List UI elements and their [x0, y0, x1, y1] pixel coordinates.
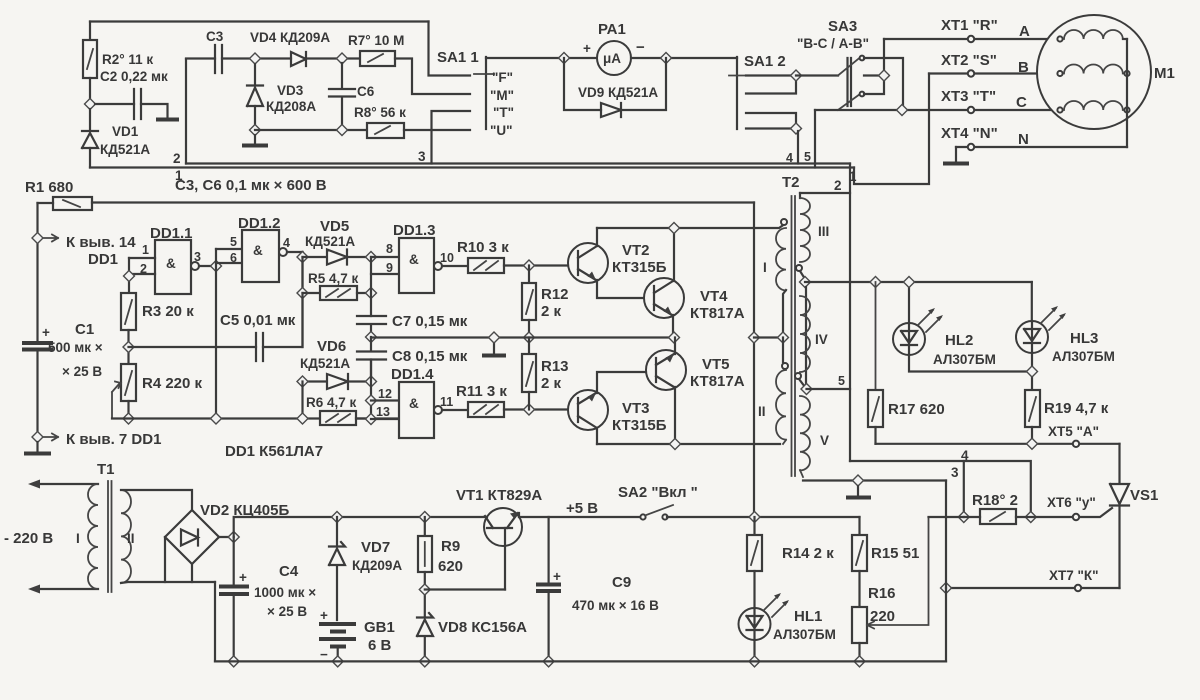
wire SA1.2 contact a: [746, 74, 796, 76]
svg-text:11: 11: [440, 395, 453, 409]
svg-text:М1: М1: [1154, 65, 1175, 82]
ground VD3 node: [254, 135, 256, 144]
LED HL1: [739, 608, 771, 640]
svg-text:R3 20 к: R3 20 к: [142, 303, 194, 320]
svg-text:КД521А: КД521А: [300, 356, 350, 371]
svg-text:μА: μА: [603, 51, 621, 66]
svg-text:VT4: VT4: [700, 288, 728, 305]
svg-text:I: I: [76, 531, 80, 546]
wire R4 bottom to feedback rail: [127, 401, 129, 419]
wire C5 right lead: [263, 252, 303, 347]
svg-text:470 мк × 16 В: 470 мк × 16 В: [572, 598, 659, 613]
node XT3 branch: [897, 105, 908, 116]
svg-text:III: III: [818, 224, 829, 239]
svg-text:КД209А: КД209А: [352, 558, 402, 573]
svg-text:Т2: Т2: [782, 174, 800, 191]
node R18 right: [1025, 512, 1036, 523]
capacitor C9: [547, 517, 549, 584]
node VD6 right: [366, 376, 377, 387]
gate DD1.1: [155, 240, 191, 294]
svg-text:C1: C1: [75, 321, 94, 338]
svg-text:+: +: [320, 608, 328, 623]
svg-text:DD1.2: DD1.2: [238, 215, 281, 232]
node R3/R4/C5: [123, 342, 134, 353]
svg-text:C3: C3: [206, 29, 224, 44]
wire DD1.1 pin2: [129, 258, 155, 293]
svg-text:4: 4: [283, 236, 290, 250]
wire XT2 row: [929, 72, 1057, 74]
svg-text:&: &: [409, 396, 419, 411]
ground XT4: [955, 147, 957, 162]
svg-text:&: &: [166, 256, 176, 271]
wire C2 left lead: [95, 103, 134, 105]
wire SA3 pole1: [796, 74, 838, 76]
wire top rail: [90, 20, 429, 22]
svg-text:C8 0,15 мк: C8 0,15 мк: [392, 348, 468, 365]
svg-text:IV: IV: [815, 332, 828, 347]
svg-text:VD1: VD1: [112, 124, 139, 139]
svg-text:8: 8: [386, 242, 393, 256]
wire R3-R4 link: [127, 330, 129, 364]
ground C2: [156, 118, 179, 122]
wire DD1.2 pin5: [216, 248, 242, 250]
wire R15-R16 link: [858, 571, 860, 607]
LED HL3: [1031, 282, 1033, 321]
diode VD4: [291, 52, 306, 66]
ground mid rail: [493, 338, 495, 355]
svg-text:&: &: [409, 252, 419, 267]
motor M1 housing: [1037, 15, 1151, 129]
diode VD1: [82, 131, 98, 148]
wire VT1 base link: [425, 588, 505, 590]
resistor R9: [424, 517, 426, 536]
svg-text:VS1: VS1: [1130, 487, 1158, 504]
resistor R3: [121, 293, 136, 330]
svg-text:VT1 КТ829А: VT1 КТ829А: [456, 487, 542, 504]
wire R2 bottom lead: [89, 78, 91, 104]
svg-text:× 25 В: × 25 В: [62, 364, 102, 379]
svg-text:2: 2: [834, 178, 842, 193]
svg-text:3: 3: [418, 149, 426, 164]
transistor VT5: [646, 350, 686, 390]
svg-text:5: 5: [804, 150, 811, 164]
wire T2 centre tap: [754, 336, 783, 338]
wire T1 secondary top to bridge: [121, 490, 192, 510]
wire SA1.2 contact c: [746, 113, 796, 129]
wire XT5 rail: [876, 443, 1120, 445]
wire DD1.4 pin13: [371, 418, 399, 420]
svg-text:R13: R13: [541, 358, 569, 375]
resistor R4 trimmer: [121, 364, 136, 401]
wire raw rail: [234, 517, 486, 537]
svg-text:620: 620: [438, 558, 463, 575]
resistor R15: [858, 517, 860, 535]
wire C3 right lead: [222, 57, 291, 59]
node VD7 top: [332, 512, 343, 523]
svg-text:R2° 11 к: R2° 11 к: [102, 52, 153, 67]
wire emitter rail bottom: [597, 443, 780, 445]
node SA1.2 lower: [791, 123, 802, 134]
thyristor VS1: [1110, 444, 1129, 588]
wire gate feed vertical x850: [849, 193, 851, 461]
wire SA1.2 contact d: [746, 127, 796, 129]
wire HL1 bottom: [753, 640, 755, 661]
svg-text:VD5: VD5: [320, 218, 349, 235]
wire PA1 right: [631, 57, 737, 59]
svg-text:+: +: [42, 325, 50, 340]
svg-text:R4 220 к: R4 220 к: [142, 375, 203, 392]
svg-text:ХТ5 "А": ХТ5 "А": [1048, 424, 1099, 439]
wire pin4 drop: [797, 131, 799, 164]
wire R14 bottom to HL1: [753, 571, 755, 608]
node C4 tap: [228, 532, 239, 543]
svg-text:4: 4: [961, 448, 969, 463]
wire XT3 row: [815, 109, 1057, 111]
wire bridge plus out: [219, 536, 234, 538]
node R3 top input: [124, 271, 135, 282]
wire R19 bottom: [1031, 427, 1033, 444]
wire arrow to pin7: [44, 434, 58, 441]
wire T1 primary bottom lead: [34, 588, 98, 590]
wire collector rail top: [597, 225, 784, 229]
svg-text:DD1: DD1: [88, 251, 118, 268]
wire DD1.3 out: [442, 265, 468, 267]
svg-text:R6 4,7 к: R6 4,7 к: [306, 395, 357, 410]
node VT3 base: [524, 404, 535, 415]
node VD6 left: [297, 376, 308, 387]
wire T2 V bottom to ground: [803, 479, 946, 481]
wire T1 primary top lead: [34, 483, 98, 485]
node bus tap T2: [749, 332, 760, 343]
svg-text:HL2: HL2: [945, 332, 973, 349]
transistor VT3: [568, 390, 608, 430]
battery GB1: [319, 622, 356, 626]
wire XT7 riser to T2 ground rail: [945, 481, 947, 589]
svg-text:"М": "М": [490, 88, 514, 103]
svg-text:6: 6: [230, 251, 237, 265]
terminal XT3: [968, 107, 974, 113]
terminal XT2: [968, 70, 974, 76]
capacitor C5: [256, 333, 263, 361]
node SA3 out: [879, 70, 890, 81]
winding T2-III: [799, 193, 801, 198]
wire R11 right: [504, 408, 570, 410]
diode VD3: [247, 86, 263, 107]
resistor R7: [360, 51, 395, 66]
svg-text:C7 0,15 мк: C7 0,15 мк: [392, 313, 468, 330]
node bottom rail x216: [211, 413, 222, 424]
node VT2 base: [524, 260, 535, 271]
wire R18 leads: [964, 516, 1073, 518]
resistor R18: [980, 509, 1016, 524]
svg-text:"Т": "Т": [493, 105, 514, 120]
resistor R5: [303, 292, 321, 294]
node T2 pin III-IV: [800, 277, 811, 288]
terminal XT5: [1073, 441, 1079, 447]
svg-text:VT2: VT2: [622, 242, 650, 259]
wire pin5 drop: [814, 110, 816, 168]
svg-text:12: 12: [378, 387, 392, 401]
svg-text:2 к: 2 к: [541, 375, 562, 392]
wire T1 secondary bottom: [121, 582, 215, 583]
terminal XT4: [968, 144, 974, 150]
wire rail pin2: [186, 162, 850, 164]
node VD5 left: [297, 252, 308, 263]
winding T1 secondary: [121, 490, 131, 583]
svg-text:R10 3 к: R10 3 к: [457, 239, 509, 256]
wire R10 right: [504, 264, 570, 266]
svg-text:R7° 10 М: R7° 10 М: [348, 33, 404, 48]
resistor R13: [528, 338, 530, 355]
winding T1 primary: [88, 484, 98, 589]
node C9 bottom rail: [543, 656, 554, 667]
winding T2-II: [782, 338, 784, 363]
diode VD5: [303, 250, 372, 265]
svg-text:КТ817А: КТ817А: [690, 305, 745, 322]
svg-text:&: &: [253, 243, 263, 258]
wire R16 wiper: [867, 517, 929, 629]
diode VD7 zener: [329, 517, 345, 620]
diode VD9: [601, 103, 621, 117]
wire VD1 top lead: [89, 109, 91, 130]
svg-text:R16: R16: [868, 585, 896, 602]
wire rail2 corner to T2 pin2: [800, 164, 850, 194]
wire T2 side link: [805, 287, 807, 384]
transformer T2 core: [792, 196, 796, 476]
wire SA3 contact1 to C-column: [864, 58, 903, 110]
svg-text:R5 4,7 к: R5 4,7 к: [308, 271, 359, 286]
svg-text:ХТ1 "R": ХТ1 "R": [941, 17, 998, 34]
node XT7 common: [941, 583, 952, 594]
svg-text:"В-С / А-В": "В-С / А-В": [797, 36, 869, 51]
wire HL2 HL3 bottoms: [909, 353, 1032, 390]
wire DD1.1 pin1: [129, 257, 155, 259]
svg-text:SA1 1: SA1 1: [437, 49, 479, 66]
wire left column lower: [36, 350, 38, 438]
wire XT4 row: [956, 146, 1127, 148]
svg-text:+: +: [583, 41, 591, 56]
svg-text:GB1: GB1: [364, 619, 395, 636]
svg-text:C6: C6: [357, 84, 375, 99]
svg-text:DD1.1: DD1.1: [150, 225, 193, 242]
wire R2 top lead: [89, 22, 91, 41]
svg-text:R9: R9: [441, 538, 460, 555]
svg-text:ХТ7 "К": ХТ7 "К": [1049, 568, 1099, 583]
winding T2-IV: [800, 296, 810, 372]
node HL1 bottom rail: [749, 656, 760, 667]
svg-text:R1 680: R1 680: [25, 179, 73, 196]
wire arrow to pin14: [44, 235, 58, 242]
wire DD1.1 out drop: [215, 249, 217, 419]
wire XT7 row: [946, 587, 1120, 589]
wire R18 left feed: [929, 516, 964, 518]
svg-text:РА1: РА1: [598, 21, 626, 38]
winding T2-I: [781, 219, 787, 225]
capacitor C3: [215, 45, 222, 73]
node T2 pin5: [801, 384, 812, 395]
svg-text:I: I: [763, 260, 767, 275]
wire DD1.2 pin6: [216, 262, 242, 264]
wire common riser from bottom rail: [945, 588, 947, 661]
wire SA3 contact2 link: [864, 39, 884, 94]
svg-text:R15 51: R15 51: [871, 545, 919, 562]
wire C3 left lead: [186, 57, 215, 59]
node VD5 right: [366, 252, 377, 263]
wire +5V rail: [519, 516, 640, 518]
resistor R12: [528, 266, 530, 284]
wire feedback bottom rail: [112, 417, 399, 419]
capacitor C4: [233, 537, 235, 586]
capacitor C8: [357, 337, 386, 383]
svg-text:VD3: VD3: [277, 83, 304, 98]
resistor R2: [83, 40, 97, 78]
svg-text:4: 4: [786, 151, 793, 165]
wire pin5 tap: [807, 388, 851, 390]
capacitor C2: [134, 89, 141, 119]
svg-text:B: B: [1018, 59, 1029, 76]
capacitor C1: [22, 341, 53, 345]
winding T2-V: [800, 396, 810, 477]
node emitter rail: [670, 439, 681, 450]
svg-text:9: 9: [386, 261, 393, 275]
wire C2 right lead: [141, 104, 168, 117]
svg-text:II: II: [758, 404, 766, 419]
node SA1.2 upper: [791, 70, 802, 81]
svg-text:DD1 К561ЛА7: DD1 К561ЛА7: [225, 443, 323, 460]
resistor R17: [875, 282, 877, 390]
node DD1.4 pin12: [366, 395, 377, 406]
svg-text:VT5: VT5: [702, 356, 730, 373]
svg-text:КТ315Б: КТ315Б: [612, 259, 667, 276]
node C6 top: [337, 53, 348, 64]
svg-text:A: A: [1019, 23, 1030, 40]
arrows HL3: [1041, 308, 1064, 330]
node K14: [32, 233, 43, 244]
switch SA1.1 bar: [485, 57, 487, 129]
switch SA3 bars: [848, 58, 852, 106]
node DD1.1 out: [211, 261, 222, 272]
node K7: [32, 432, 43, 443]
svg-text:- 220 В: - 220 В: [4, 530, 53, 547]
capacitor C6: [329, 63, 355, 125]
svg-text:3: 3: [194, 250, 201, 264]
svg-text:ХТ6 "у": ХТ6 "у": [1047, 495, 1096, 510]
wire VD6 right column: [370, 360, 372, 420]
node bus SA2 rail: [749, 512, 760, 523]
node PA1 right: [661, 53, 672, 64]
gate DD1.2: [242, 230, 279, 282]
winding M1-C: [1057, 107, 1062, 112]
wire C5 left lead: [129, 346, 257, 348]
node R12 mid-rail: [524, 332, 535, 343]
node PA1 left: [559, 53, 570, 64]
wire DD1.1 out: [199, 265, 216, 267]
node R5 left: [297, 288, 308, 299]
wire R1 long rail to T2 bus: [92, 201, 754, 203]
wire C5 to R5 column: [301, 293, 303, 347]
node T2 tap left: [778, 332, 789, 343]
svg-text:2 к: 2 к: [541, 303, 562, 320]
winding M1-A: [1057, 36, 1062, 41]
svg-text:VT3: VT3: [622, 400, 650, 417]
svg-text:R12: R12: [541, 286, 569, 303]
svg-text:С3, С6 0,1 мк × 600 В: С3, С6 0,1 мк × 600 В: [175, 177, 327, 194]
node C7/C8 mid: [366, 332, 377, 343]
gate DD1.3: [399, 238, 434, 293]
capacitor C7: [357, 316, 386, 337]
node R4 bottom: [123, 413, 134, 424]
wire DD1.3 pin8: [371, 256, 399, 258]
svg-text:C5 0,01 мк: C5 0,01 мк: [220, 312, 296, 329]
svg-text:КТ315Б: КТ315Б: [612, 417, 667, 434]
switch SA3 wiper1: [838, 58, 860, 76]
wire SA1.2 contact b: [746, 76, 796, 94]
gate DD1.4: [399, 382, 434, 438]
svg-text:АЛ307БМ: АЛ307БМ: [773, 627, 836, 642]
wire R17 bottom: [874, 427, 876, 444]
ground C1: [36, 442, 38, 452]
transistor VT4: [644, 278, 684, 318]
svg-text:R14 2 к: R14 2 к: [782, 545, 834, 562]
wire F-stub from top rail: [429, 22, 471, 76]
winding M1-B: [1057, 71, 1062, 76]
switch SA1.2 bar: [736, 57, 738, 129]
node HL3 bottom: [1027, 366, 1038, 377]
terminal XT6: [1073, 514, 1079, 520]
svg-text:2: 2: [173, 151, 181, 166]
svg-text:1000 мк ×: 1000 мк ×: [254, 585, 316, 600]
wire R1 left lead: [38, 202, 54, 204]
wire XT6 row: [1079, 508, 1112, 517]
wire T-stub drop to rail: [432, 111, 471, 164]
node R16 bottom rail: [854, 656, 865, 667]
wire VD3 top lead: [254, 64, 256, 85]
svg-text:3: 3: [951, 465, 959, 480]
ground T2: [857, 486, 859, 496]
svg-text:6 В: 6 В: [368, 637, 392, 654]
arrows HL1: [764, 595, 787, 617]
resistor R16 trimmer: [852, 607, 867, 643]
node R9 top: [419, 512, 430, 523]
node VD3 top: [250, 53, 261, 64]
svg-text:ХТ4 "N": ХТ4 "N": [941, 125, 998, 142]
node R9 base junction: [419, 584, 430, 595]
wire R1 bus vertical: [753, 203, 755, 518]
arrows HL2: [918, 310, 941, 332]
svg-text:ХТ3 "Т": ХТ3 "Т": [941, 88, 996, 105]
svg-text:C4: C4: [279, 563, 299, 580]
wire R13 bottom: [528, 392, 530, 410]
wire bridge minus drop: [214, 582, 216, 661]
wire left column upper: [36, 203, 38, 343]
wire VD6 left riser: [301, 382, 303, 419]
node R18 left: [958, 512, 969, 523]
svg-text:C: C: [1016, 94, 1027, 111]
svg-text:SA2 "Вкл ": SA2 "Вкл ": [618, 484, 698, 501]
svg-text:+: +: [553, 569, 561, 584]
node R19 XT5: [1027, 438, 1038, 449]
wire SA1.1 pole to PA1: [486, 57, 597, 59]
svg-text:V: V: [820, 433, 829, 448]
svg-text:R19 4,7 к: R19 4,7 к: [1044, 400, 1109, 417]
node R5 right: [366, 288, 377, 299]
wire DD1.4 pin12: [371, 399, 399, 401]
svg-text:КД521А: КД521А: [305, 234, 355, 249]
wire gate feed horizontal: [850, 461, 1031, 517]
svg-text:АЛ307БМ: АЛ307БМ: [933, 352, 996, 367]
resistor R8: [367, 123, 404, 138]
svg-text:VD6: VD6: [317, 338, 346, 355]
